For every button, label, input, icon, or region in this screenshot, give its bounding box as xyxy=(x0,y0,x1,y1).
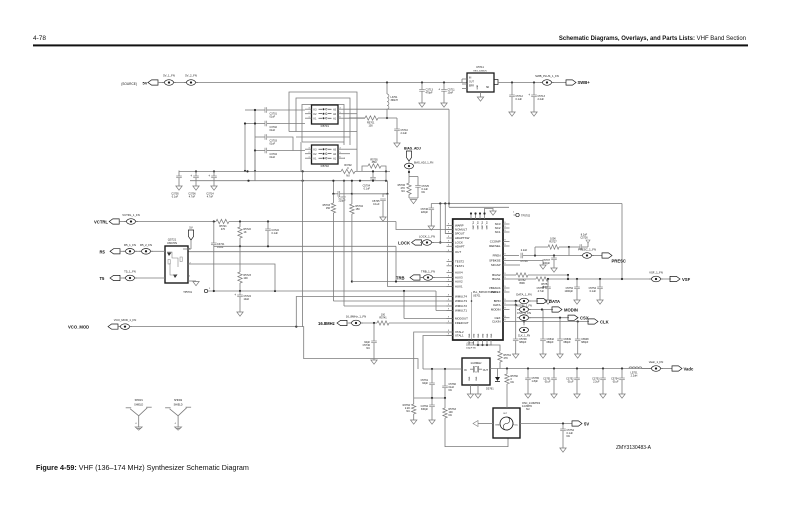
svg-text:R5_2_FN: R5_2_FN xyxy=(140,243,152,247)
svg-text:9: 9 xyxy=(448,228,449,230)
svg-text:FREN: FREN xyxy=(493,254,501,258)
svg-text:100: 100 xyxy=(369,125,374,128)
svg-text:CSX_1_FN: CSX_1_FN xyxy=(517,311,531,315)
svg-text:GND: GND xyxy=(478,333,480,338)
svg-text:NC1: NC1 xyxy=(495,230,501,234)
svg-text:VCO_MOD: VCO_MOD xyxy=(68,325,89,330)
svg-text:9: 9 xyxy=(505,273,506,275)
svg-text:5V: 5V xyxy=(143,81,148,86)
svg-text:MODIN: MODIN xyxy=(564,308,578,313)
svg-text:5V: 5V xyxy=(189,226,193,230)
svg-text:01uF: 01uF xyxy=(270,115,276,118)
svg-text:9: 9 xyxy=(505,316,506,318)
svg-text:0.1uF: 0.1uF xyxy=(590,290,597,293)
svg-text:1: 1 xyxy=(309,117,310,119)
svg-text:NU: NU xyxy=(449,389,453,392)
svg-text:PD_GND: PD_GND xyxy=(481,222,483,231)
svg-text:9: 9 xyxy=(505,244,506,246)
svg-text:UMC5N: UMC5N xyxy=(167,241,177,245)
svg-text:NU: NU xyxy=(406,410,410,413)
svg-text:LOCK_1_FN: LOCK_1_FN xyxy=(419,235,435,239)
svg-text:+: + xyxy=(234,293,236,297)
svg-text:1K: 1K xyxy=(244,231,247,234)
svg-text:TRB_1_FN: TRB_1_FN xyxy=(421,270,435,274)
svg-text:CLKIN: CLKIN xyxy=(492,320,501,324)
svg-text:9: 9 xyxy=(448,264,449,266)
svg-text:OUT: OUT xyxy=(469,82,474,84)
svg-text:0.1uF: 0.1uF xyxy=(373,203,380,206)
svg-text:+: + xyxy=(528,93,530,97)
svg-text:9: 9 xyxy=(505,230,506,232)
svg-text:5: 5 xyxy=(340,152,341,154)
svg-text:9: 9 xyxy=(448,260,449,262)
svg-text:47K: 47K xyxy=(504,357,509,360)
svg-text:VCTRL_1_FN: VCTRL_1_FN xyxy=(122,213,140,217)
svg-text:9: 9 xyxy=(505,222,506,224)
svg-text:3: 3 xyxy=(309,148,310,150)
svg-text:GND: GND xyxy=(495,425,500,427)
svg-text:6: 6 xyxy=(340,157,341,159)
svg-text:9: 9 xyxy=(448,321,449,323)
svg-text:1: 1 xyxy=(309,157,310,159)
svg-text:SHFR1: SHFR1 xyxy=(135,399,144,402)
svg-text:9: 9 xyxy=(448,285,449,287)
svg-text:1.8pF: 1.8pF xyxy=(532,380,539,383)
svg-text:NU: NU xyxy=(567,435,571,438)
svg-text:CCOMP: CCOMP xyxy=(490,240,501,244)
svg-text:SHIELD: SHIELD xyxy=(174,403,183,406)
svg-text:SHFR2: SHFR2 xyxy=(174,399,183,402)
svg-text:5V_1_FN: 5V_1_FN xyxy=(163,74,175,78)
svg-text:BIAS_ADJ_1_FN: BIAS_ADJ_1_FN xyxy=(414,162,434,165)
svg-text:9: 9 xyxy=(505,240,506,242)
svg-text:9: 9 xyxy=(448,295,449,297)
svg-text:220pF: 220pF xyxy=(338,199,346,202)
svg-text:9: 9 xyxy=(505,259,506,261)
svg-text:9: 9 xyxy=(448,271,449,273)
svg-text:WMULT2: WMULT2 xyxy=(455,304,467,308)
svg-text:01uF: 01uF xyxy=(568,381,574,384)
svg-text:R5_1_FN: R5_1_FN xyxy=(124,243,136,247)
svg-text:10uF: 10uF xyxy=(448,92,454,95)
svg-text:GND: GND xyxy=(469,333,471,338)
svg-text:+: + xyxy=(190,174,192,178)
svg-text:470pF: 470pF xyxy=(426,92,434,95)
svg-text:9: 9 xyxy=(505,254,506,256)
svg-text:10uF: 10uF xyxy=(244,298,250,301)
svg-text:5: 5 xyxy=(340,112,341,114)
svg-text:5V: 5V xyxy=(584,422,589,427)
svg-text:BIAS_ADJ: BIAS_ADJ xyxy=(404,147,421,151)
svg-text:VCC: VCC xyxy=(513,425,518,427)
svg-text:WMULT4: WMULT4 xyxy=(455,295,467,299)
svg-text:DATA_1_FN: DATA_1_FN xyxy=(516,293,531,297)
svg-text:T5: T5 xyxy=(100,276,106,281)
svg-text:VSF: VSF xyxy=(682,277,691,282)
svg-text:PD_GND: PD_GND xyxy=(476,222,478,231)
svg-text:PD_GND: PD_GND xyxy=(472,222,474,231)
svg-text:NU: NU xyxy=(346,175,350,178)
svg-text:01uF: 01uF xyxy=(270,129,276,132)
svg-text:GND: GND xyxy=(474,333,476,338)
svg-text:D5702: D5702 xyxy=(321,164,330,168)
svg-text:OUT: OUT xyxy=(483,369,489,372)
svg-text:VSF_1_FN: VSF_1_FN xyxy=(649,271,663,275)
svg-text:01uF: 01uF xyxy=(270,142,276,145)
svg-text:680pF: 680pF xyxy=(547,341,555,344)
svg-text:680pF: 680pF xyxy=(564,341,572,344)
svg-text:IN: IN xyxy=(469,78,472,80)
svg-text:35M: 35M xyxy=(372,161,377,164)
svg-text:01uF: 01uF xyxy=(270,156,276,159)
svg-text:IN: IN xyxy=(464,369,467,372)
svg-text:NU: NU xyxy=(526,408,530,411)
svg-text:VCTRL: VCTRL xyxy=(94,220,108,225)
svg-text:1000pF: 1000pF xyxy=(565,290,574,293)
svg-text:R3727: R3727 xyxy=(549,241,557,244)
svg-text:NU: NU xyxy=(366,347,370,350)
svg-text:4: 4 xyxy=(340,148,341,150)
svg-text:16_8MHz_1_FN: 16_8MHz_1_FN xyxy=(346,315,366,319)
svg-text:AUX2: AUX2 xyxy=(455,280,463,284)
svg-text:T5_1_FN: T5_1_FN xyxy=(124,270,136,274)
svg-text:PRESC_1_FN: PRESC_1_FN xyxy=(578,248,596,252)
svg-text:GND: GND xyxy=(483,333,485,338)
svg-text:R5741: R5741 xyxy=(379,317,387,320)
svg-text:4.7uF: 4.7uF xyxy=(189,195,196,198)
svg-text:9: 9 xyxy=(448,304,449,306)
svg-text:D5701: D5701 xyxy=(321,124,330,128)
svg-text:GND: GND xyxy=(491,333,493,338)
svg-text:9: 9 xyxy=(448,250,449,252)
svg-text:TRB: TRB xyxy=(396,276,405,281)
svg-text:9: 9 xyxy=(448,245,449,247)
svg-text:4-78: 4-78 xyxy=(33,35,46,42)
svg-text:DATA: DATA xyxy=(493,303,500,307)
svg-text:2.2uF: 2.2uF xyxy=(401,132,408,135)
svg-text:WMULT3: WMULT3 xyxy=(455,299,467,303)
svg-text:100: 100 xyxy=(244,277,249,280)
svg-text:4.7uF: 4.7uF xyxy=(207,195,214,198)
svg-text:Figure 4-59: VHF (136–174 MHz): Figure 4-59: VHF (136–174 MHz) Synthesiz… xyxy=(36,463,249,472)
svg-text:CSX: CSX xyxy=(580,316,589,321)
svg-text:TP5702: TP5702 xyxy=(521,214,531,218)
svg-text:5POUT: 5POUT xyxy=(455,232,465,236)
svg-text:2: 2 xyxy=(309,152,310,154)
svg-text:NU: NU xyxy=(511,381,515,384)
svg-text:SD: SD xyxy=(486,87,490,89)
svg-text:9: 9 xyxy=(505,263,506,265)
svg-text:9: 9 xyxy=(505,320,506,322)
svg-text:D5761: D5761 xyxy=(486,387,494,391)
svg-text:9: 9 xyxy=(505,303,506,305)
svg-text:MODOUT: MODOUT xyxy=(455,317,468,321)
svg-text:+C5749: +C5749 xyxy=(466,343,475,345)
svg-text:+: + xyxy=(438,88,440,92)
svg-text:TP5701: TP5701 xyxy=(183,291,192,294)
svg-text:150: 150 xyxy=(356,208,361,211)
svg-text:2.2uF: 2.2uF xyxy=(593,381,600,384)
svg-text:AUX4: AUX4 xyxy=(455,271,463,275)
svg-text:PD_GND: PD_GND xyxy=(485,222,487,231)
svg-text:LOCK: LOCK xyxy=(398,241,410,246)
svg-text:ERR: ERR xyxy=(469,86,474,88)
svg-text:ZMY3130483-A: ZMY3130483-A xyxy=(616,445,652,451)
svg-text:CLK: CLK xyxy=(600,320,609,325)
svg-text:OUT: OUT xyxy=(455,250,461,254)
svg-text:2: 2 xyxy=(309,112,310,114)
svg-text:9: 9 xyxy=(505,290,506,292)
svg-text:NU: NU xyxy=(449,414,453,417)
svg-text:REFSEL: REFSEL xyxy=(489,244,501,248)
svg-text:390nH: 390nH xyxy=(391,99,399,102)
svg-text:9: 9 xyxy=(505,277,506,279)
svg-text:SHIELD: SHIELD xyxy=(134,403,143,406)
svg-text:PRESC: PRESC xyxy=(612,259,626,264)
svg-text:9: 9 xyxy=(448,309,449,311)
svg-text:9: 9 xyxy=(505,286,506,288)
svg-text:100pF: 100pF xyxy=(543,262,551,265)
svg-text:0.1uF: 0.1uF xyxy=(172,195,179,198)
svg-text:01uF: 01uF xyxy=(545,381,551,384)
svg-text:4.7uF: 4.7uF xyxy=(538,290,545,293)
svg-text:NU: NU xyxy=(422,191,426,194)
svg-text:14.8MHz: 14.8MHz xyxy=(470,361,482,365)
svg-text:680pF: 680pF xyxy=(581,341,589,344)
svg-text:SFBKSE: SFBKSE xyxy=(489,259,500,263)
svg-text:ADAPTSW: ADAPTSW xyxy=(455,236,470,240)
svg-text:C5726: C5726 xyxy=(580,236,588,239)
svg-text:AUX1: AUX1 xyxy=(455,285,463,289)
svg-text:R5: R5 xyxy=(100,249,106,254)
svg-text:NU: NU xyxy=(401,190,405,193)
svg-text:470: 470 xyxy=(221,228,226,231)
svg-text:9: 9 xyxy=(505,299,506,301)
svg-text:MODIN: MODIN xyxy=(491,308,501,312)
svg-text:16.8MHz: 16.8MHz xyxy=(318,321,335,326)
svg-text:100pF NU: 100pF NU xyxy=(466,347,476,349)
svg-text:U5711: U5711 xyxy=(476,65,484,69)
svg-text:GND: GND xyxy=(477,84,479,89)
svg-text:3: 3 xyxy=(309,108,310,110)
svg-text:330pF: 330pF xyxy=(421,408,429,411)
svg-text:Vadc: Vadc xyxy=(684,367,694,372)
svg-text:9: 9 xyxy=(448,280,449,282)
svg-text:BIAS1: BIAS1 xyxy=(492,277,501,281)
svg-text:GND: GND xyxy=(476,376,478,381)
svg-text:+: + xyxy=(208,174,210,178)
svg-text:100: 100 xyxy=(381,314,386,317)
svg-text:9: 9 xyxy=(448,317,449,319)
svg-text:680pF: 680pF xyxy=(519,341,527,344)
svg-text:XTAL1: XTAL1 xyxy=(455,334,464,338)
svg-text:U5701: U5701 xyxy=(473,295,481,298)
svg-text:01uF: 01uF xyxy=(613,381,619,384)
svg-text:9: 9 xyxy=(448,236,449,238)
svg-text:9: 9 xyxy=(448,224,449,226)
svg-text:(SOURCE): (SOURCE) xyxy=(121,82,137,86)
svg-text:5V_2_FN: 5V_2_FN xyxy=(185,74,197,78)
svg-text:DATA: DATA xyxy=(549,299,560,304)
svg-text:GND: GND xyxy=(469,376,471,381)
svg-text:4: 4 xyxy=(340,108,341,110)
svg-text:SWB+: SWB+ xyxy=(578,80,591,85)
svg-text:150: 150 xyxy=(326,207,331,210)
svg-text:2.2uF: 2.2uF xyxy=(521,249,528,252)
svg-text:TEST1: TEST1 xyxy=(455,264,464,268)
svg-text:Vadc_1_FN: Vadc_1_FN xyxy=(649,360,664,364)
svg-text:6: 6 xyxy=(340,117,341,119)
svg-text:0.1uF: 0.1uF xyxy=(364,187,371,190)
svg-text:2.2uF: 2.2uF xyxy=(538,98,545,101)
svg-text:220pF: 220pF xyxy=(421,211,429,214)
svg-text:SFCAP: SFCAP xyxy=(491,263,501,267)
svg-text:2.2uH: 2.2uH xyxy=(631,374,638,377)
svg-text:SWB_PLUS_1_FN: SWB_PLUS_1_FN xyxy=(535,74,559,78)
svg-text:100K: 100K xyxy=(550,238,556,241)
svg-text:FREFOUT: FREFOUT xyxy=(455,321,469,325)
svg-text:94pF: 94pF xyxy=(422,382,428,385)
svg-text:350K: 350K xyxy=(519,282,525,285)
svg-text:9: 9 xyxy=(505,226,506,228)
svg-text:VCO_MOD_1_FN: VCO_MOD_1_FN xyxy=(114,318,137,322)
svg-text:9: 9 xyxy=(505,308,506,310)
svg-text:ADAPT: ADAPT xyxy=(455,245,465,249)
svg-text:0.1uF: 0.1uF xyxy=(516,98,523,101)
svg-text:GND: GND xyxy=(487,333,489,338)
svg-text:0.1uF: 0.1uF xyxy=(272,232,279,235)
svg-text:REG_5080UN: REG_5080UN xyxy=(473,71,487,73)
svg-text:9: 9 xyxy=(448,299,449,301)
svg-text:MODIN_1_FN: MODIN_1_FN xyxy=(516,304,532,307)
svg-text:WMULT1: WMULT1 xyxy=(455,309,467,313)
svg-text:Schematic Diagrams, Overlays,: Schematic Diagrams, Overlays, and Parts … xyxy=(559,36,746,42)
